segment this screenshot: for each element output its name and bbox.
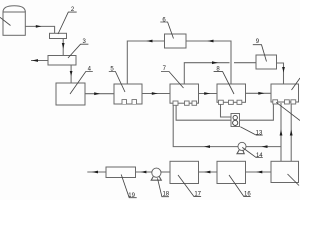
leader box10 top-right	[292, 78, 301, 90]
pump 18	[151, 168, 161, 180]
wire pump18 to box19	[136, 171, 153, 173]
wire box3 outflow left	[31, 60, 48, 62]
leader label19	[121, 175, 137, 198]
arrow box16 to box17	[204, 171, 210, 174]
arrow box7 line to box9	[212, 61, 218, 64]
wire box16 to box17	[199, 171, 218, 173]
wire box2 to box3	[62, 39, 64, 56]
arrow box15 to box16	[256, 171, 262, 174]
arrow box9 to box10	[282, 67, 285, 73]
box5 notch 2	[132, 100, 137, 104]
leader label13	[240, 127, 262, 135]
box8 foot 3	[237, 100, 242, 104]
box 10 rightmost reactor	[271, 84, 299, 102]
leader box10 feet	[276, 102, 300, 120]
box 6 condenser	[165, 34, 187, 48]
leader label6	[160, 22, 173, 39]
leader label17	[178, 175, 201, 197]
tank 1 body	[3, 12, 25, 35]
box10 foot 1	[273, 100, 278, 104]
box10 foot 3	[291, 100, 296, 104]
wire box15 to box16	[246, 171, 272, 173]
svg-text:17: 17	[194, 192, 201, 198]
box 3	[48, 56, 76, 66]
arrow box8 to box10	[258, 92, 264, 95]
wire valve13 to box10 bottom	[240, 102, 274, 120]
pump 14	[237, 142, 246, 153]
arrow riser left up	[280, 130, 283, 136]
box5 notch 1	[122, 100, 127, 104]
arrow box3 to box4	[70, 71, 73, 76]
arrow tank1 to box2	[36, 25, 42, 28]
leader label9	[253, 45, 267, 62]
arrow pump18 to box19	[141, 171, 147, 174]
arrow box4 to box5	[94, 92, 100, 95]
wire box4 to box5	[85, 93, 114, 95]
arrow condenser line right outer	[207, 40, 213, 43]
wire box7 to box8	[199, 93, 218, 95]
wire box8 bottom to valve13	[221, 104, 232, 117]
box7 foot 2	[185, 101, 190, 105]
tank 1 dome	[3, 6, 25, 12]
arrow box5 to box7	[152, 92, 158, 95]
box8 foot 1	[219, 100, 224, 104]
leader box15	[288, 174, 300, 186]
wire box9 to box10 top	[277, 63, 284, 84]
box 17	[170, 161, 199, 183]
leader label7	[161, 72, 184, 89]
wire box3 to box4	[70, 65, 72, 83]
wire box8 top via condenser6 to box5 top	[127, 41, 231, 84]
wire box8 to box10	[246, 92, 272, 94]
box7 foot 1	[173, 101, 178, 105]
arrow recycle toward pump14	[262, 145, 268, 148]
leader label4	[70, 72, 93, 95]
arrow box7 to box8	[204, 92, 210, 95]
leader label18	[158, 178, 170, 196]
svg-text:18: 18	[162, 192, 169, 198]
box 7	[170, 84, 199, 103]
arrow riser right up	[290, 130, 293, 136]
leader label5	[109, 72, 125, 93]
box10 foot 2	[285, 100, 290, 104]
wire recycle pump14 line to box7 bottom	[173, 105, 281, 146]
wire box7 top to box9	[184, 63, 229, 84]
arrow box19 outflow	[92, 171, 98, 174]
svg-text:14: 14	[256, 153, 263, 159]
box 5	[114, 84, 142, 104]
box 16	[217, 161, 246, 183]
svg-text:13: 13	[256, 131, 263, 137]
arrow box2 to box3	[62, 43, 65, 49]
box8 foot 2	[229, 100, 234, 104]
leader label16	[229, 175, 251, 197]
box7 foot 3	[192, 101, 197, 105]
box 8	[217, 84, 246, 102]
box 2	[50, 33, 67, 38]
leader label2	[58, 12, 77, 34]
leader label14	[242, 147, 262, 157]
box 19	[106, 167, 136, 178]
wire box7 bottom to valve13	[176, 105, 231, 120]
svg-text:16: 16	[244, 192, 251, 198]
leader label8	[214, 72, 234, 94]
wire box17 to pump18	[160, 171, 170, 173]
box 4	[56, 83, 85, 105]
svg-text:19: 19	[128, 193, 135, 199]
box 15	[271, 161, 299, 182]
wire box5 to box7	[142, 93, 170, 95]
wire box10 down to box15 left riser	[280, 103, 282, 161]
wire box7-box9 segment after crossing	[234, 62, 256, 64]
wire box10 down to box15 right riser	[290, 103, 292, 161]
wire tank1 to box2	[25, 26, 54, 33]
arrow recycle left of pump	[204, 145, 210, 148]
box 9	[256, 55, 277, 69]
wire box19 outflow left	[87, 171, 106, 173]
leader label3	[68, 44, 88, 58]
arrow box3 outflow	[32, 59, 38, 62]
arrow condenser line left outer	[146, 40, 152, 43]
leader label1	[0, 17, 11, 25]
valve 13 rotary	[231, 114, 240, 127]
